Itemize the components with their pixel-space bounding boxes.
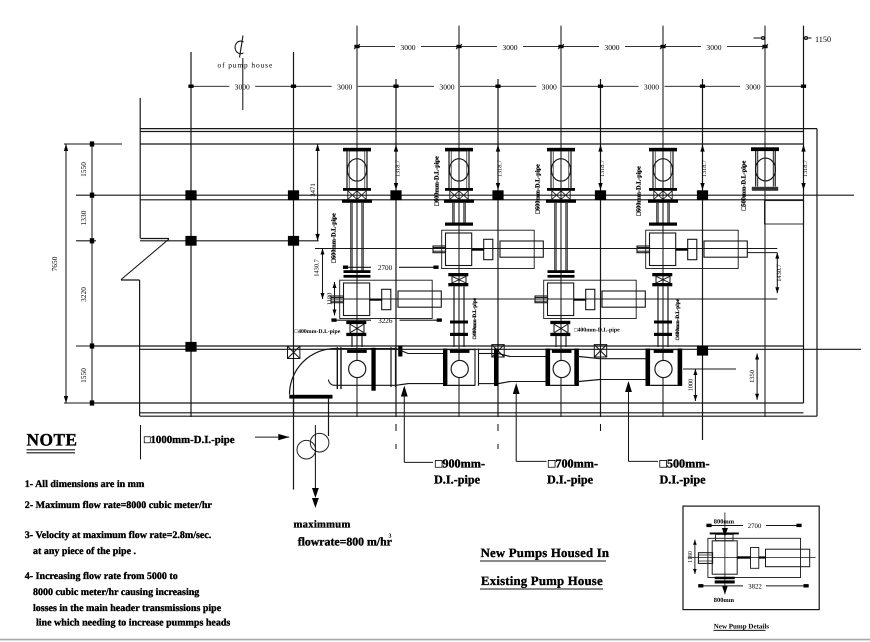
pump P1 casing body [344, 283, 370, 316]
dimension 3226 pump 1 [331, 318, 442, 321]
pump P2 bolted flange joint [444, 188, 474, 203]
detail bottom flange [715, 577, 735, 584]
svg-text:□900mm-: □900mm- [435, 457, 485, 471]
svg-text:□400mm-D.I.-pipe: □400mm-D.I.-pipe [295, 328, 341, 335]
wire grid row A second [140, 199, 804, 201]
svg-text:8000 cubic meter/hr causing in: 8000 cubic meter/hr causing increasing [33, 587, 199, 598]
label maximum flowrate [294, 520, 392, 549]
svg-text:1430.7: 1430.7 [776, 263, 783, 281]
pump P2 header connection flanges [450, 321, 468, 337]
detail dimension 3222 [698, 584, 809, 587]
NOTE heading [27, 430, 78, 453]
header elbow bottom flange [289, 395, 332, 399]
pump P2 connection flange in header [450, 350, 470, 353]
svg-text:1318.7: 1318.7 [701, 160, 708, 177]
paper edge streak at bottom [0, 639, 870, 641]
label 500mm pipe [660, 457, 710, 487]
svg-text:1318.7: 1318.7 [599, 160, 606, 177]
detail pump top flange [710, 533, 739, 541]
header valve pump 3 [553, 360, 570, 377]
note item 4 [25, 571, 231, 629]
pump P4 suction nozzle [637, 246, 650, 253]
svg-text:7650: 7650 [50, 256, 59, 271]
pump P3 shaft [574, 299, 586, 301]
svg-text:New Pump Details: New Pump Details [714, 622, 769, 630]
pump P1 unit enclosure outline [340, 280, 433, 318]
header 1000mm section [335, 349, 397, 386]
detail caption New Pump Details [714, 622, 770, 630]
pump P3 casing body [548, 283, 574, 316]
detail shaft centerline [688, 557, 816, 559]
svg-text:1550: 1550 [79, 368, 88, 383]
svg-text:3- Velocity at maximum flow r: 3- Velocity at maximum flow rate=2.8m/se… [25, 530, 212, 541]
wire wall top outer [140, 128, 817, 130]
svg-text:1150: 1150 [815, 35, 831, 44]
dimension row pump spacing 3000 x4 [354, 44, 768, 49]
pump P3 inlet flange pair [548, 270, 575, 277]
svg-text:losses in the main header tran: losses in the main header transmissions … [33, 603, 222, 614]
svg-text:1180: 1180 [327, 293, 334, 306]
wire grid column 1 [190, 52, 192, 417]
pump P4 casing body [650, 233, 676, 266]
pump P4 shaft coupling [688, 239, 697, 259]
wire grid column 3 [395, 79, 397, 449]
suction drop pipe [294, 399, 329, 490]
dimension 2700 pump 1 [343, 266, 439, 269]
svg-text:New Pumps Housed In: New Pumps Housed In [481, 546, 610, 560]
pump P1 motor [398, 291, 441, 307]
pump P2 casing body [446, 233, 472, 266]
svg-text:1550: 1550 [79, 162, 88, 177]
svg-text:NOTE: NOTE [27, 430, 78, 450]
svg-text:1350: 1350 [749, 370, 756, 383]
detail suction stub [698, 553, 712, 564]
svg-text:3226: 3226 [378, 317, 393, 325]
dimension 1430.7 right [747, 253, 779, 294]
pump P3 discharge flange with bolts [550, 321, 570, 336]
svg-text:1430.7: 1430.7 [314, 258, 321, 276]
pump P2 shaft [472, 249, 484, 251]
pump P3 discharge pipe to header [556, 336, 566, 347]
svg-text:□500mm-D.I.-pipe: □500mm-D.I.-pipe [741, 160, 748, 210]
header reducer 900x700 [498, 354, 510, 384]
svg-text:at any piece of the pipe .: at any piece of the pipe . [33, 546, 137, 557]
pump P3 bolted flange joint [546, 188, 576, 203]
wire lower pump axis line [331, 298, 777, 300]
pump P2 top flange, riser pipe and butterfly valve [445, 148, 473, 188]
wire inner border bottom [92, 402, 804, 404]
dimension 1350 [755, 354, 759, 400]
svg-text:D.I.-pipe: D.I.-pipe [547, 473, 594, 487]
wire grid column 5 [600, 79, 602, 431]
header elbow [290, 349, 336, 395]
wire grid row C second [140, 348, 861, 350]
header centerline extension [683, 368, 736, 370]
wire grid column 7 / inner border right [803, 26, 805, 403]
svg-text:3000: 3000 [337, 83, 352, 92]
pump P5 top flange riser and butterfly valve [751, 147, 779, 186]
svg-text:3471: 3471 [310, 183, 317, 197]
svg-text:□500mm-: □500mm- [660, 457, 710, 471]
svg-text:2700: 2700 [378, 264, 393, 272]
detail baseplate [708, 538, 801, 577]
column marker square 7 [185, 236, 196, 246]
pump P1 suction pipe [350, 203, 363, 273]
header 900mm section [408, 354, 494, 384]
pump P2 shaft coupling [484, 239, 493, 259]
svg-text:D.I.-pipe: D.I.-pipe [660, 473, 707, 487]
column marker square 2 [288, 190, 299, 200]
pump P3 shaft coupling [586, 289, 595, 309]
header valve pump 2 [451, 360, 468, 377]
detail pump body [712, 541, 737, 574]
header tee pump2 [443, 349, 479, 387]
wire outer border right [816, 129, 818, 417]
wire outer border bottom [140, 415, 817, 417]
leader 500mm pipe [625, 381, 658, 461]
title line 1 [480, 546, 609, 561]
wire grid column 4 [497, 79, 499, 449]
wire upper pump axis line [315, 248, 777, 250]
svg-text:line which needing to increase: line which needing to increase pummps he… [36, 618, 230, 629]
leader 900mm pipe [401, 386, 433, 463]
svg-text:Existing Pump House: Existing Pump House [481, 574, 603, 588]
pump P4 discharge flange with bolts [652, 273, 672, 286]
wire wall top inner [140, 131, 804, 133]
pump P2 suction nozzle [433, 246, 446, 253]
column marker square 9 [185, 342, 196, 352]
dimension 1180 pump 1 [333, 282, 337, 316]
svg-text:800mm: 800mm [714, 519, 735, 526]
flow direction arrow down [312, 425, 319, 508]
header tee pump1 flanges [337, 347, 375, 390]
detail motor [766, 549, 810, 567]
wire outer wall bottom upper [140, 412, 804, 414]
svg-text:3822: 3822 [748, 584, 762, 591]
wire pump centerline 5 [764, 26, 766, 417]
detail dimension 2700 [706, 524, 801, 527]
pump P4 discharge pipe to header [658, 286, 668, 347]
svg-text:1318.7: 1318.7 [802, 160, 809, 177]
note item 3 [25, 530, 212, 557]
svg-text:3: 3 [389, 534, 392, 540]
svg-text:□600mm-D.I.-pipe: □600mm-D.I.-pipe [434, 156, 441, 206]
svg-text:1- All dimensions are in mm: 1- All dimensions are in mm [25, 479, 145, 490]
dimension chain line left [90, 141, 94, 405]
wire line y144 [140, 143, 804, 145]
dimension row grid spacing 3000 x6 [188, 85, 806, 88]
pump P3 top flange, riser pipe and butterfly valve [547, 148, 575, 188]
leader 700mm pipe [513, 383, 547, 461]
svg-text:3000: 3000 [502, 43, 517, 52]
column marker square 10 [697, 346, 708, 356]
pump P4 bolted flange joint [648, 188, 678, 203]
title line 2 [480, 574, 603, 589]
pump P1 discharge pipe to header [352, 336, 362, 347]
pump P4 unit enclosure outline [646, 230, 739, 268]
wire pump centerline 2 [458, 26, 460, 417]
wire grid row C main [92, 345, 804, 347]
detail box border [683, 506, 819, 609]
wire grid row A main [92, 194, 854, 196]
header 500mm section [600, 359, 646, 380]
header tee pump4 [646, 349, 683, 387]
header valve pump 4 [655, 360, 672, 377]
pump P4 inlet flange [649, 223, 677, 226]
wire pump centerline 1 [356, 26, 358, 417]
svg-text:1180: 1180 [688, 551, 694, 563]
pump P1 discharge flange with bolts [346, 321, 366, 336]
header tee pump3 [546, 349, 579, 387]
column marker square 3 [390, 190, 401, 200]
svg-text:□400mm-D.I.-pipe: □400mm-D.I.-pipe [574, 326, 620, 333]
svg-text:D.I.-pipe: D.I.-pipe [434, 473, 481, 487]
pump P3 connection flange in header [552, 350, 572, 353]
svg-text:1000: 1000 [688, 379, 695, 391]
dimension 1318.7 at column 3 [496, 145, 500, 190]
svg-text:4- Increasing flow rate from: 4- Increasing flow rate from 5000 to [25, 571, 178, 582]
label 1000mm pipe leader [141, 425, 290, 459]
pump P1 shaft [370, 299, 382, 301]
svg-text:3000: 3000 [745, 83, 760, 92]
dimension 1150 at top right [754, 35, 832, 44]
pump P5 bottom flange [752, 187, 778, 191]
svg-text:3000: 3000 [400, 43, 415, 52]
column marker square 5 [595, 190, 606, 200]
dimension 3471 [315, 144, 319, 241]
valve symbol X-box at grid 5 [594, 345, 606, 357]
column marker square 1 [185, 190, 196, 200]
dimension 7650 overall [64, 144, 68, 403]
header joint flange at grid 3 [391, 346, 402, 388]
wire grid column 6 [702, 79, 704, 440]
header 700mm section [510, 357, 546, 382]
svg-text:□700mm-: □700mm- [548, 457, 598, 471]
wire grid row B [140, 240, 319, 242]
header reducer 700x500 [579, 357, 600, 382]
pump P2 suction pipe [452, 203, 465, 223]
valve symbol X-box at grid 2 [288, 346, 300, 358]
pump P4 connection flange in header [654, 350, 674, 353]
label 900mm pipe [434, 457, 485, 487]
wire left wall with break symbol [121, 98, 169, 416]
svg-text:□400mm-D.I.-pipe: □400mm-D.I.-pipe [675, 298, 681, 340]
svg-text:flowrate=800 m/hr: flowrate=800 m/hr [298, 534, 392, 548]
header joint flange right of pump2 [494, 349, 498, 387]
pump P4 top flange, riser pipe and butterfly valve [649, 148, 677, 188]
svg-text:□1000mm-D.I.-pipe: □1000mm-D.I.-pipe [144, 434, 235, 446]
pump P1 bolted flange joint [342, 188, 372, 203]
svg-text:3220: 3220 [79, 287, 88, 302]
dimension 1000 right of pump 4 [693, 369, 697, 401]
dimension extension ticks left [64, 144, 122, 403]
suction pipe expansion circles [297, 433, 329, 459]
detail arrow out [722, 586, 728, 595]
svg-text:□600mm-D.I.-pipe: □600mm-D.I.-pipe [636, 166, 643, 216]
pump P3 suction pipe [554, 203, 567, 273]
pump P1 connection flange in header [347, 350, 367, 353]
column marker square 4 [492, 190, 503, 200]
svg-text:1330: 1330 [79, 210, 88, 225]
label 700mm pipe [547, 457, 598, 487]
pump P2 unit enclosure outline [442, 230, 535, 268]
valve symbol X-box at grid 4 [492, 345, 504, 357]
svg-text:3000: 3000 [644, 83, 659, 92]
pump P3 motor [602, 291, 645, 307]
pump P2 discharge pipe to header [454, 286, 464, 347]
dimension 1318.7 at column 4 [598, 145, 602, 190]
detail vertical centerline [724, 513, 726, 595]
dimension 1318.7 at column 6 [801, 145, 805, 190]
svg-text:of pump house: of pump house [218, 61, 274, 70]
svg-text:3000: 3000 [439, 83, 454, 92]
dimension 1318.7 at column 5 [700, 145, 704, 190]
pump P1 top flange, riser pipe and butterfly valve [343, 148, 371, 188]
svg-text:□400mm-D.I.-pipe: □400mm-D.I.-pipe [472, 297, 478, 339]
detail coupling [751, 548, 759, 569]
detail arrow in [722, 528, 728, 537]
wire pump centerline 4 [662, 26, 664, 417]
svg-text:3000: 3000 [604, 43, 619, 52]
detail shaft [737, 556, 766, 558]
pump P2 motor [500, 241, 543, 257]
svg-text:1318.7: 1318.7 [394, 160, 401, 177]
dimension 1318.7 at column 2 [394, 145, 398, 190]
header valve pump 1 [349, 360, 366, 377]
pump P4 motor [704, 241, 747, 257]
detail dimension 1180 [693, 540, 697, 574]
dimension 1430.7 left [321, 249, 325, 300]
svg-text:3000: 3000 [706, 43, 721, 52]
svg-text:1318.7: 1318.7 [496, 160, 503, 177]
pump P2 discharge flange with bolts [448, 273, 468, 286]
pump P3 suction nozzle [535, 296, 548, 303]
pump P3 unit enclosure outline [544, 280, 637, 318]
svg-text:maximmum: maximmum [294, 520, 351, 531]
pump P2 inlet flange [445, 223, 473, 226]
column marker square 8 [288, 236, 299, 246]
pump P4 suction pipe [656, 203, 669, 223]
pump P1 shaft coupling [382, 289, 391, 309]
pump P1 inlet flange pair [344, 270, 371, 277]
svg-text:3000: 3000 [542, 83, 557, 92]
column marker square 6 [697, 190, 708, 200]
header reducer 1000x900 [396, 349, 408, 386]
wire pump centerline 3 [560, 26, 562, 417]
svg-text:2- Maximum flow rate=8000 cub: 2- Maximum flow rate=8000 cubic meter/hr [25, 500, 213, 511]
wire grid column 2 [293, 52, 295, 417]
pump P1 suction nozzle [331, 296, 344, 303]
svg-text:800mm: 800mm [714, 597, 735, 604]
pump P4 header connection flanges [654, 321, 672, 337]
svg-text:□600mm-D.I.-pipe: □600mm-D.I.-pipe [535, 164, 542, 214]
svg-text:2700: 2700 [748, 523, 762, 530]
pump P5 future pump box [765, 201, 804, 224]
pump P4 shaft [676, 249, 688, 251]
svg-text:□600mm-D.I.-pipe: □600mm-D.I.-pipe [331, 213, 338, 263]
centerline symbol CL of pump house [235, 36, 243, 111]
